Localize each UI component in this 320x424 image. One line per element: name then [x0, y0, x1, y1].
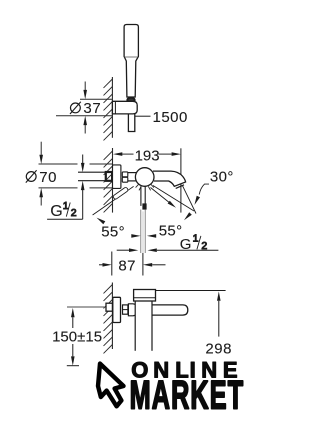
- body link: [128, 172, 137, 174]
- G1/2 right leader: [117, 249, 130, 251]
- svg-text:2: 2: [201, 240, 207, 252]
- hand shower wall hatching: [104, 79, 113, 140]
- plan cap: [134, 290, 156, 302]
- wall holder bracket: [112, 101, 137, 114]
- lever silhouette left: [113, 187, 129, 200]
- svg-text:G: G: [180, 236, 192, 253]
- svg-text:193: 193: [135, 147, 160, 164]
- spout: [153, 171, 186, 186]
- 193 right extension / vertical reference: [180, 148, 182, 212]
- dimension O37 text: [71, 103, 81, 113]
- dimension O70 arrows: [39, 155, 43, 164]
- logo text ONLINE: [131, 357, 237, 382]
- svg-text:87: 87: [118, 258, 135, 275]
- wall line (mixer front view): [112, 148, 114, 213]
- svg-text:1: 1: [193, 233, 199, 245]
- leader 1500: [135, 115, 151, 117]
- spout swing arc arrow: [184, 212, 192, 220]
- pipe thread nipple: [106, 172, 112, 181]
- plan body D piece: [128, 304, 138, 316]
- svg-text:G: G: [50, 203, 62, 220]
- lever swing left 55deg line: [93, 186, 134, 215]
- hose connector nut: [127, 98, 134, 103]
- plan centre line: [67, 306, 106, 308]
- pivot tick marks: [136, 184, 154, 190]
- dimension 150+-15: [71, 308, 75, 317]
- svg-text:30°: 30°: [210, 169, 234, 186]
- dimension 298: [156, 290, 226, 292]
- plan spout bar: [152, 305, 188, 315]
- dimension O37 arrows: [83, 90, 87, 99]
- cartridge ball: [135, 168, 154, 187]
- svg-text:55°: 55°: [101, 224, 125, 241]
- logo text MARKET: [130, 374, 245, 418]
- svg-text:70: 70: [39, 169, 57, 186]
- dimension O70 extension lines: [39, 142, 113, 206]
- mixer wall hatching: [104, 151, 113, 212]
- dimension 87: [111, 252, 113, 276]
- shower outlet tube G1/2: [140, 210, 142, 253]
- dimension 193: [122, 153, 172, 155]
- plan wall hatching: [104, 285, 113, 354]
- logo cursor icon: [98, 364, 124, 407]
- svg-text:298: 298: [205, 340, 232, 357]
- spout swing 30deg line: [183, 186, 197, 214]
- svg-text:150±15: 150±15: [52, 328, 102, 345]
- mixer escutcheon (front): [113, 165, 121, 189]
- hand shower handle: [124, 25, 138, 98]
- G1/2 left thread arrows: [82, 155, 84, 164]
- svg-text:37: 37: [83, 100, 101, 117]
- plan body tube: [135, 301, 152, 351]
- supply pipe: [78, 171, 106, 173]
- svg-text:MARKET: MARKET: [130, 374, 245, 418]
- plan escutcheon: [113, 297, 121, 322]
- wall line (plan view): [111, 283, 113, 350]
- G1/2 left label: [47, 218, 83, 220]
- plan nut: [123, 305, 128, 314]
- shower hose: [128, 110, 134, 132]
- 30deg leader: [199, 184, 209, 194]
- dimension O37 extension lines: [56, 82, 112, 134]
- svg-text:2: 2: [71, 207, 77, 219]
- lever swing right 55deg lines: [151, 188, 171, 204]
- lever (down position): [140, 186, 142, 206]
- rotation limit arrows: [131, 234, 140, 238]
- wall line (hand shower view): [111, 77, 113, 138]
- connection nut: [122, 172, 128, 177]
- dimension O70 text: [26, 172, 36, 182]
- svg-text:1500: 1500: [153, 109, 188, 126]
- plan nipple: [106, 303, 112, 311]
